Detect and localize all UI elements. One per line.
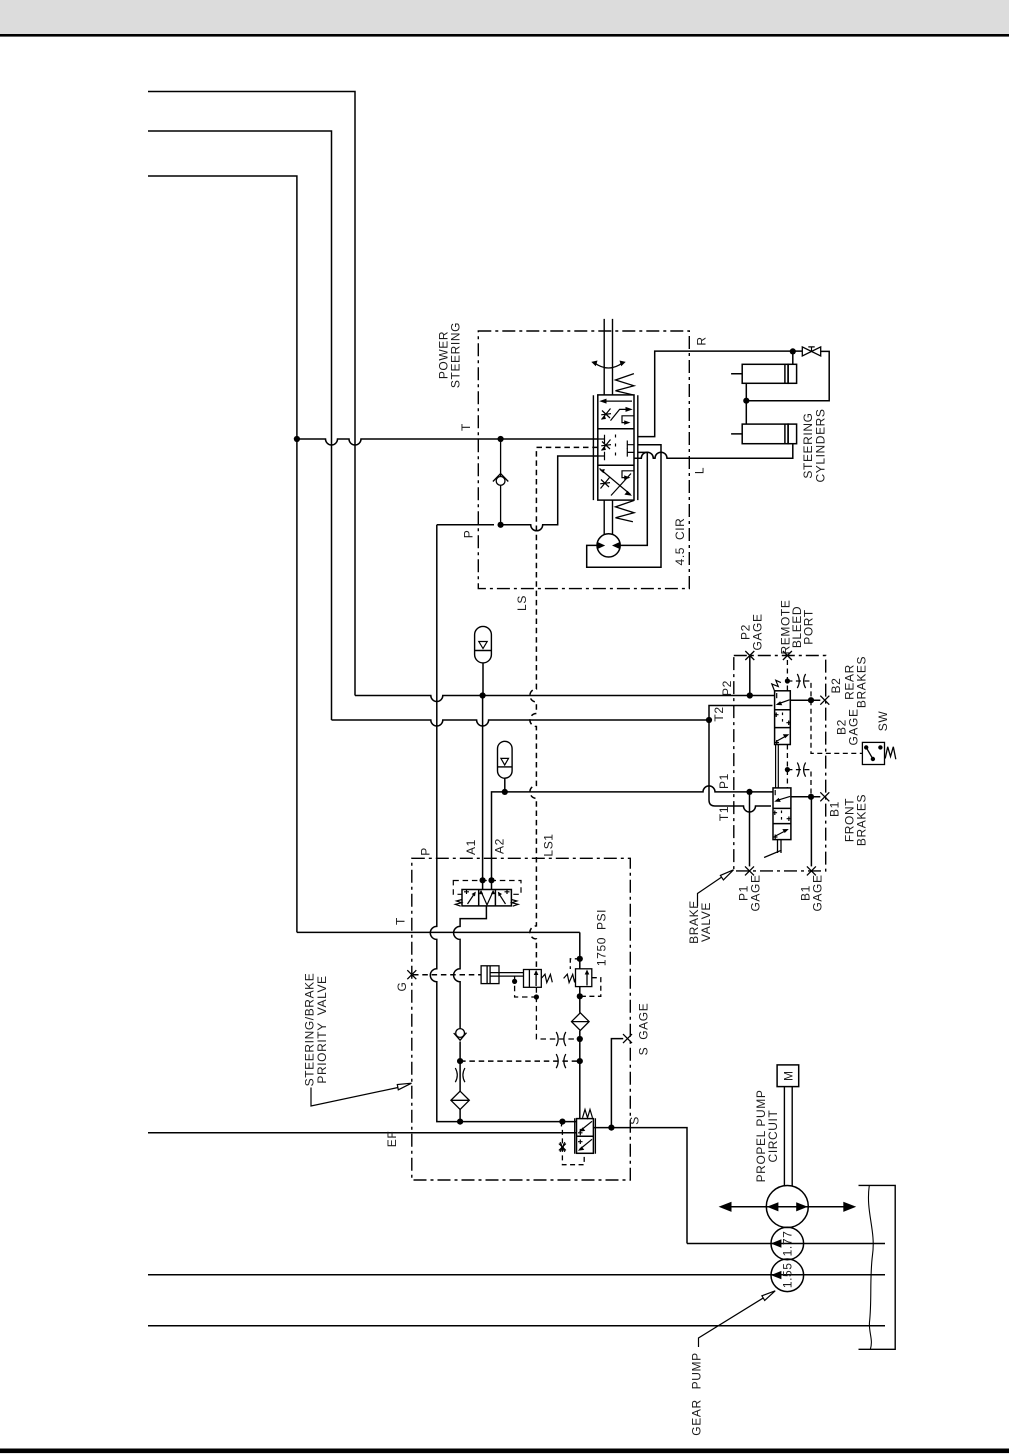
priority spool top cell symbols xyxy=(578,1121,592,1135)
node: accumulator 1 junction on P2 line xyxy=(480,692,486,698)
brake charge solenoid valve pilot dashed box xyxy=(453,881,521,895)
steering cylinder 1 xyxy=(731,364,797,400)
wire: T2 branch up into rear brake valve xyxy=(709,706,773,721)
accumulator 2 xyxy=(498,741,513,778)
node: B2 pilot junction xyxy=(808,697,814,703)
wire: G dashed gauge line xyxy=(413,974,481,976)
relief pilot dashed (top left loop) xyxy=(570,959,580,969)
node: P / check valve bottom junction xyxy=(498,522,504,528)
steering valve bottom position symbols (crossed arrows) xyxy=(600,469,634,496)
svg-text:G: G xyxy=(395,982,409,992)
P1 GAGE X on bottom border xyxy=(745,866,754,875)
node: T2 junction dot xyxy=(706,717,712,723)
wire: case drain line xyxy=(148,1325,885,1327)
wire: B1 gauge drop xyxy=(810,797,812,867)
spring: pilot valve right xyxy=(541,974,552,982)
wire: supply line 2 (turns down to P1 feed) xyxy=(148,131,332,720)
gerotor internal arrowheads xyxy=(598,542,620,549)
rear brake valve body xyxy=(775,691,791,745)
svg-text:BRAKES: BRAKES xyxy=(855,656,869,708)
wire: steering valve right port to gerotor (inner) xyxy=(620,452,647,545)
spring: charge valve right xyxy=(511,900,518,907)
steering control valve body (3 position) xyxy=(593,395,637,500)
wire: bleed valve to cylinder junction xyxy=(746,351,829,400)
front valve pilot dashed column xyxy=(787,745,811,797)
pilot piston cylinder (priority pilot) xyxy=(481,966,523,984)
svg-text:T: T xyxy=(394,917,408,925)
svg-text:S: S xyxy=(628,1116,642,1125)
check ball (brake charge check valve) xyxy=(454,1029,467,1041)
orifice symbol on charge/relief dashed link xyxy=(556,1054,566,1068)
propel pump inner arrowheads xyxy=(767,1202,808,1211)
priority spool bottom cell symbols xyxy=(578,1139,592,1151)
svg-text:L: L xyxy=(693,467,707,474)
steering cylinder 2 xyxy=(731,401,797,444)
filter diamond (relief column) xyxy=(572,1013,590,1031)
wire: P line from priority valve up into steering valve xyxy=(437,456,598,531)
wire: LS load-sense dashed line from steering valve down to priority pilot valve xyxy=(530,447,598,969)
spring: rear brake valve top xyxy=(772,680,781,690)
front valve bottom cell symbol xyxy=(773,829,789,840)
wire: R line from steering valve to cylinders xyxy=(638,351,803,437)
svg-text:GAGE: GAGE xyxy=(847,708,861,745)
P2 GAGE port X on top border xyxy=(745,651,754,660)
B1 port X on right border xyxy=(820,792,829,801)
wire: P vertical line (supply to priority spool) xyxy=(430,525,576,1122)
node: orifice branch dot xyxy=(457,1058,463,1064)
steering valve centre position symbols (blocked ports) xyxy=(598,435,634,461)
svg-text:EF: EF xyxy=(385,1131,399,1148)
node: LS pilot to relief column dot xyxy=(577,1036,583,1042)
svg-text:A1: A1 xyxy=(464,839,478,855)
front valve top cell symbol xyxy=(774,790,790,802)
header rule line xyxy=(0,34,1009,37)
spool link rod between brake valves (double line) xyxy=(776,745,779,788)
wire: P2 gauge drop line xyxy=(749,656,751,696)
svg-text:T: T xyxy=(459,423,473,431)
front brake valve body xyxy=(773,788,791,840)
wire: charge valve output to check ball column xyxy=(454,906,487,1029)
1.55 inner arrowhead xyxy=(771,1271,782,1279)
brake charge valve right cell symbols xyxy=(498,890,510,904)
svg-text:B1: B1 xyxy=(828,801,842,817)
svg-text:S GAGE: S GAGE xyxy=(637,1003,651,1056)
orifice on front pilot line xyxy=(797,763,805,777)
spring: charge valve left xyxy=(455,900,462,907)
REMOTE BLEED PORT X on top border xyxy=(783,651,792,660)
propel circuit bracket xyxy=(859,1185,896,1349)
gear pump 1.77 circle xyxy=(771,1227,804,1260)
arrowhead at rear valve T2 port xyxy=(775,703,781,708)
steering wheel rotation arc with arrowheads xyxy=(591,361,625,369)
shutoff bleed valve on R line xyxy=(802,347,820,356)
POWER STEERING dash-dot enclosure xyxy=(478,331,689,589)
node: accumulator 2 junction on P1 line xyxy=(502,789,508,795)
node: spool pilot branch on supply line xyxy=(559,1119,565,1125)
svg-text:P2: P2 xyxy=(720,680,734,696)
wire: T line into power steering valve xyxy=(297,439,598,445)
wire: S line from priority spool to propel pump circuit xyxy=(593,1128,687,1244)
svg-text:1.77: 1.77 xyxy=(781,1231,795,1257)
rear valve top cell symbol (modulating arrow) xyxy=(776,693,790,705)
propel pump variable displacement arrow (right) xyxy=(785,1202,856,1212)
brake charge valve middle cell symbols (V with arrows) xyxy=(479,890,495,905)
wire: 1.77 pump suction line xyxy=(687,1243,885,1245)
B2 port X on right border xyxy=(820,696,829,705)
svg-text:BRAKES: BRAKES xyxy=(855,794,869,846)
STEERING/BRAKE PRIORITY VALVE dash-dot enclosure xyxy=(412,858,631,1180)
gerotor metering motor circle xyxy=(597,534,620,557)
wire: 1.55 pump suction line xyxy=(148,1274,885,1276)
steering column to gerotor (double line) xyxy=(604,500,612,534)
node: relief bottom dot xyxy=(577,993,583,999)
wire: orifice dashed line from charge column to relief column xyxy=(460,1060,580,1062)
pressure switch SW box xyxy=(862,742,884,764)
propel pump variable displacement arrow (left) xyxy=(719,1202,790,1212)
svg-text:GEAR PUMP: GEAR PUMP xyxy=(690,1352,704,1435)
1.77 inner arrowhead xyxy=(771,1239,782,1247)
node: rear pilot dot xyxy=(785,678,790,683)
wire: supply line 1 (top, turns down to P2/T2 feed) xyxy=(148,92,355,696)
wire: P1 gauge drop xyxy=(749,792,751,867)
pilot valve body xyxy=(524,970,542,988)
relief valve 1750 PSI body xyxy=(576,969,592,987)
node: A2 at pilot box xyxy=(488,877,494,883)
svg-text:P: P xyxy=(419,847,433,856)
svg-text:4.5 CIR: 4.5 CIR xyxy=(673,518,687,566)
BRAKE VALVE dash-dot enclosure xyxy=(734,656,826,871)
node: check valve top junction on T line xyxy=(498,436,504,442)
wire: P1 header line from supply 2 to brake valve T2 junction xyxy=(332,720,710,726)
node: front pilot dot xyxy=(785,767,790,772)
svg-text:M: M xyxy=(782,1070,796,1081)
leader arrow to gear pump xyxy=(699,1291,776,1347)
spring: priority spool top xyxy=(583,1110,593,1118)
wire: relief column (T line down through relief valve to spool) xyxy=(579,932,581,1118)
node: pilot dashed dot 1 xyxy=(512,979,517,984)
node: P2 gauge branch junction xyxy=(747,692,753,698)
wire: T2 down to T1 line into front brake valve xyxy=(709,720,771,812)
svg-text:R: R xyxy=(695,336,709,345)
wire: P1 line from A2 corner to brake valve P1 port xyxy=(492,786,775,890)
propel pump circle xyxy=(766,1186,808,1228)
svg-text:STEERING: STEERING xyxy=(449,322,463,388)
wire: EF line from left to priority spool xyxy=(148,1132,577,1134)
wire: A1 line from P2 header to charge valve xyxy=(482,696,484,890)
svg-text:CIRCUIT: CIRCUIT xyxy=(766,1110,780,1163)
svg-text:P: P xyxy=(462,530,476,539)
motor shaft (double line) xyxy=(784,1087,792,1186)
svg-text:A2: A2 xyxy=(493,838,507,854)
svg-text:P1: P1 xyxy=(717,773,731,789)
relief pilot dashed (right loop) xyxy=(583,978,601,997)
node: S gauge junction xyxy=(608,1125,614,1131)
wire: T line through priority valve to relief column xyxy=(297,931,580,933)
wire: B2 gauge dashed to pressure switch xyxy=(811,700,863,753)
svg-text:LS1: LS1 xyxy=(542,833,556,856)
pilot dashed loop under pilot valve xyxy=(515,977,580,1040)
svg-text:LS: LS xyxy=(515,595,529,611)
header gray bar xyxy=(0,0,1009,34)
svg-text:GAGE: GAGE xyxy=(749,874,763,911)
svg-text:CYLINDERS: CYLINDERS xyxy=(814,408,828,482)
wire: accumulator 1 stem xyxy=(482,663,484,696)
svg-text:GAGE: GAGE xyxy=(811,874,825,911)
filter diamond (charge column) xyxy=(451,1091,469,1109)
wire: check ball to filter column xyxy=(459,1042,461,1092)
orifice symbol on charge column xyxy=(455,1068,465,1082)
accumulator 1 xyxy=(475,626,492,663)
spring: steering valve bottom centering spring xyxy=(616,501,635,522)
node: B1 pilot junction xyxy=(808,794,814,800)
wire: R dot down to cylinder 1 top xyxy=(792,351,794,364)
svg-text:PRIORITY VALVE: PRIORITY VALVE xyxy=(315,975,329,1083)
steering column (double line shaft) xyxy=(604,319,612,395)
svg-text:PORT: PORT xyxy=(802,609,816,645)
spool pilot dashed with damping orifice xyxy=(561,1122,584,1165)
wire: steering valve right port to gerotor loop (outer) xyxy=(587,445,661,568)
priority spool valve body (2 position) xyxy=(575,1118,596,1154)
svg-text:1.55: 1.55 xyxy=(781,1262,795,1288)
brake charge valve body (3 position) xyxy=(462,890,511,906)
S GAGE port X symbol xyxy=(623,1034,632,1043)
brake pedal actuator xyxy=(764,840,781,858)
node: relief top dot xyxy=(577,956,583,962)
node: P1 gauge branch junction xyxy=(746,789,752,795)
leader arrow to brake valve xyxy=(698,870,734,906)
spring: steering valve top centering spring xyxy=(616,374,635,395)
spring: relief valve left xyxy=(564,974,576,982)
node: filter bottom on supply line xyxy=(457,1119,463,1125)
electric motor M box xyxy=(777,1065,799,1087)
damping orifice X symbol xyxy=(559,1142,566,1152)
svg-text:VALVE: VALVE xyxy=(699,902,713,942)
wire: B2 line from rear valve to border port xyxy=(790,699,820,701)
rear valve pilot dashed from remote bleed port xyxy=(787,660,811,700)
rear valve bottom cell symbol xyxy=(775,734,790,745)
spring: pressure switch right xyxy=(885,747,896,759)
svg-text:GAGE: GAGE xyxy=(751,613,765,650)
G port X symbol xyxy=(407,970,416,979)
footer rule line xyxy=(0,1449,1009,1454)
brake charge valve left cell symbols xyxy=(464,890,476,904)
wire: filter to priority supply line xyxy=(459,1109,461,1121)
rear valve middle cell symbols xyxy=(774,713,791,726)
node: A1 at pilot box xyxy=(480,877,486,883)
svg-text:T1: T1 xyxy=(717,806,731,821)
propel circuit break squiggle xyxy=(868,1185,873,1349)
node: R branch to cylinder 1 xyxy=(790,348,796,354)
steering valve top position symbols xyxy=(599,399,633,425)
svg-text:T2: T2 xyxy=(712,706,726,721)
wire: S gauge line xyxy=(611,1039,623,1128)
wire: L line from steering valve to cylinders xyxy=(634,444,793,459)
node: pilot dashed dot 2 xyxy=(534,994,539,999)
svg-text:B2: B2 xyxy=(829,678,843,694)
check valve PS inlet (circle and seat) xyxy=(493,439,508,525)
leader arrow to priority valve xyxy=(311,1083,412,1106)
svg-text:1750 PSI: 1750 PSI xyxy=(595,909,609,966)
svg-text:SW: SW xyxy=(876,711,890,732)
wire: B1 line from front valve to border port xyxy=(791,796,820,798)
node: T branch junction on tank line xyxy=(294,436,300,442)
node: cylinders common junction xyxy=(743,398,749,404)
front valve middle cell symbols xyxy=(773,811,792,822)
wire: tank return line (turns down, feeds T of steering and priority valve) xyxy=(148,176,297,932)
B1 GAGE X on bottom border xyxy=(807,866,816,875)
wire: accumulator 2 stem xyxy=(504,778,506,792)
gear pump 1.55 circle xyxy=(771,1259,804,1292)
wire: P2 header line from supply 1 to brake valve P2 port xyxy=(355,696,775,702)
arrowhead at front valve T1 port xyxy=(773,803,779,808)
orifice symbol on LS pilot dashed line xyxy=(556,1032,566,1046)
orifice on rear pilot line xyxy=(797,674,805,688)
node: link dot on relief column xyxy=(577,1058,583,1064)
